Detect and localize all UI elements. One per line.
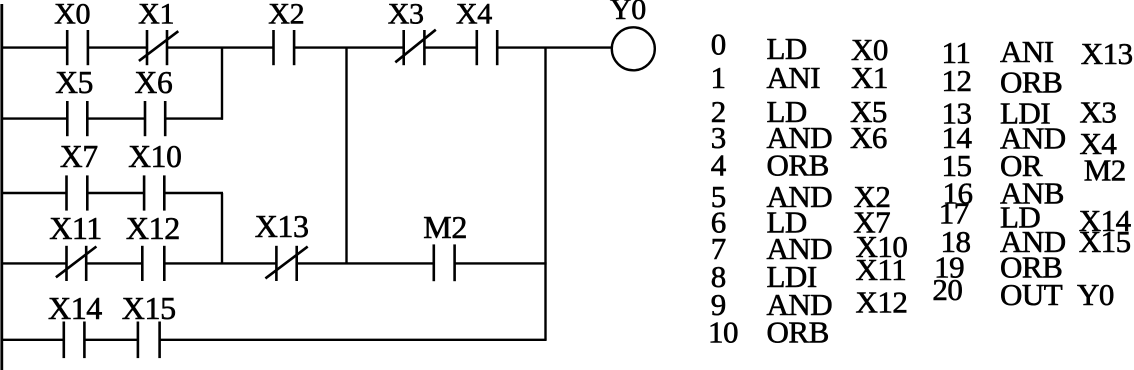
svg-text:ORB: ORB <box>1000 64 1062 99</box>
instruction list row 5: AND X2 <box>711 179 891 214</box>
coil Y0 <box>612 27 655 70</box>
svg-text:X6: X6 <box>850 120 887 155</box>
instruction list row 11: ANI X13 <box>942 34 1133 71</box>
svg-text:M2: M2 <box>1084 153 1126 188</box>
contact X7 <box>67 175 88 210</box>
contact X15 <box>138 322 160 359</box>
svg-text:Y0: Y0 <box>610 0 646 26</box>
instruction list row 20: OUT Y0 <box>932 272 1113 312</box>
wire X10 to node D <box>164 192 223 194</box>
label X2 <box>268 0 304 31</box>
contact X5 <box>67 101 87 136</box>
contact X4 <box>477 30 497 65</box>
wire X1 to X2 <box>167 46 274 48</box>
contact X0 <box>67 30 88 65</box>
svg-text:X13: X13 <box>1081 36 1133 71</box>
wire X4 to coil Y0 <box>497 46 612 48</box>
label X1 <box>138 0 174 30</box>
instruction list row 15: OR M2 <box>942 148 1126 188</box>
svg-text:M2: M2 <box>423 209 467 245</box>
wire rung2 rail to X5 <box>2 117 67 119</box>
svg-text:10: 10 <box>708 315 738 350</box>
wire X3 to X4 <box>424 46 476 48</box>
svg-text:X3: X3 <box>388 0 424 30</box>
contact X3 (NC) <box>395 30 436 65</box>
label X5 <box>55 65 93 100</box>
svg-text:X0: X0 <box>54 0 90 30</box>
svg-text:X11: X11 <box>856 252 907 287</box>
svg-text:X12: X12 <box>856 284 908 319</box>
contact X12 <box>142 246 164 281</box>
wire rung5 rail to X14 <box>2 339 64 341</box>
label X0 <box>54 0 90 30</box>
contact X2 <box>274 30 295 65</box>
wire X14 to X15 <box>84 339 137 341</box>
label X6 <box>135 65 173 100</box>
svg-text:12: 12 <box>942 63 972 98</box>
instruction list row 19: ORB <box>934 250 1062 285</box>
instruction list row 3: AND X6 <box>711 120 887 155</box>
wire rung1 rail to X0 <box>2 46 67 48</box>
wire X0 to X1 <box>88 46 147 48</box>
svg-text:X2: X2 <box>268 0 304 31</box>
svg-text:X7: X7 <box>60 139 98 174</box>
instruction list row 13: LDI X3 <box>942 95 1117 131</box>
instruction list row 14: AND X4 <box>942 120 1118 161</box>
wire X5 to X6 <box>87 117 145 119</box>
vertical wire node B (rung1 to rung4) <box>345 48 347 264</box>
instruction list row 12: ORB <box>942 63 1063 99</box>
vertical wire node D (rung3 to rung4) <box>221 193 223 263</box>
wire rung4 rail to X11 <box>2 262 67 264</box>
instruction list row 17: LD X14 <box>939 196 1132 239</box>
wire X15 to node C <box>160 339 547 341</box>
svg-text:X6: X6 <box>135 65 173 100</box>
wire X11 to X12 <box>86 262 142 264</box>
vertical wire node C (rung1 to rung5) <box>544 48 546 340</box>
svg-text:X11: X11 <box>49 210 102 246</box>
label X10 <box>128 139 181 174</box>
svg-text:X15: X15 <box>122 290 176 326</box>
label X12 <box>126 210 180 246</box>
svg-text:ORB: ORB <box>767 315 829 350</box>
svg-text:20: 20 <box>932 272 962 307</box>
label X3 <box>388 0 424 30</box>
svg-text:X15: X15 <box>1079 224 1131 259</box>
instruction list row 16: ANB <box>943 176 1064 211</box>
contact M2 <box>434 244 455 281</box>
wire X6 to node A <box>165 117 223 119</box>
instruction list row 6: LD X7 <box>711 205 890 240</box>
label X11 <box>49 210 102 246</box>
svg-text:X3: X3 <box>1080 95 1117 130</box>
instruction list row 1: ANI X1 <box>711 60 888 95</box>
svg-text:X14: X14 <box>48 290 102 326</box>
contact X11 (NC) <box>56 246 97 281</box>
svg-text:X1: X1 <box>851 60 888 95</box>
svg-text:X13: X13 <box>255 208 309 244</box>
instruction list row 8: LDI X11 <box>711 252 906 294</box>
contact X1 (NC) <box>139 30 178 65</box>
svg-text:X10: X10 <box>128 139 181 174</box>
wire M2 to node C <box>455 262 547 264</box>
svg-text:X4: X4 <box>456 0 492 30</box>
label M2 <box>423 209 467 245</box>
instruction list row 9: AND X12 <box>711 284 908 321</box>
svg-text:0: 0 <box>711 27 726 62</box>
label Y0 <box>610 0 646 26</box>
svg-text:X12: X12 <box>126 210 180 246</box>
svg-text:ORB: ORB <box>767 148 829 183</box>
svg-text:X1: X1 <box>138 0 174 30</box>
label X14 <box>48 290 102 326</box>
contact X13 (NC) <box>265 246 307 281</box>
wire X2 to X3 <box>294 46 404 48</box>
wire rung3 rail to X7 <box>2 192 67 194</box>
instruction list row 7: AND X10 <box>711 229 908 266</box>
instruction list row 10: ORB <box>708 315 829 350</box>
svg-text:ANI: ANI <box>767 60 821 95</box>
svg-text:OUT: OUT <box>1000 277 1063 312</box>
label X15 <box>122 290 176 326</box>
instruction list row 0: LD X0 <box>711 27 888 67</box>
svg-text:Y0: Y0 <box>1077 277 1114 312</box>
wire X7 to X10 <box>87 192 144 194</box>
label X13 <box>255 208 309 244</box>
svg-text:1: 1 <box>711 60 726 95</box>
svg-text:4: 4 <box>711 148 727 183</box>
wire X13 to M2 <box>297 262 434 264</box>
vertical wire node A (rung1 to rung2) <box>221 48 223 120</box>
wire X12 to X13 <box>164 262 276 264</box>
label X7 <box>60 139 98 174</box>
instruction list row 4: ORB <box>711 148 829 183</box>
svg-text:X5: X5 <box>55 65 93 100</box>
contact X10 <box>144 175 164 210</box>
contact X6 <box>145 101 165 136</box>
label X4 <box>456 0 492 30</box>
contact X14 <box>64 322 85 359</box>
instruction list row 18: AND X15 <box>941 224 1131 259</box>
instruction list row 2: LD X5 <box>711 94 887 129</box>
left power rail <box>0 4 3 370</box>
